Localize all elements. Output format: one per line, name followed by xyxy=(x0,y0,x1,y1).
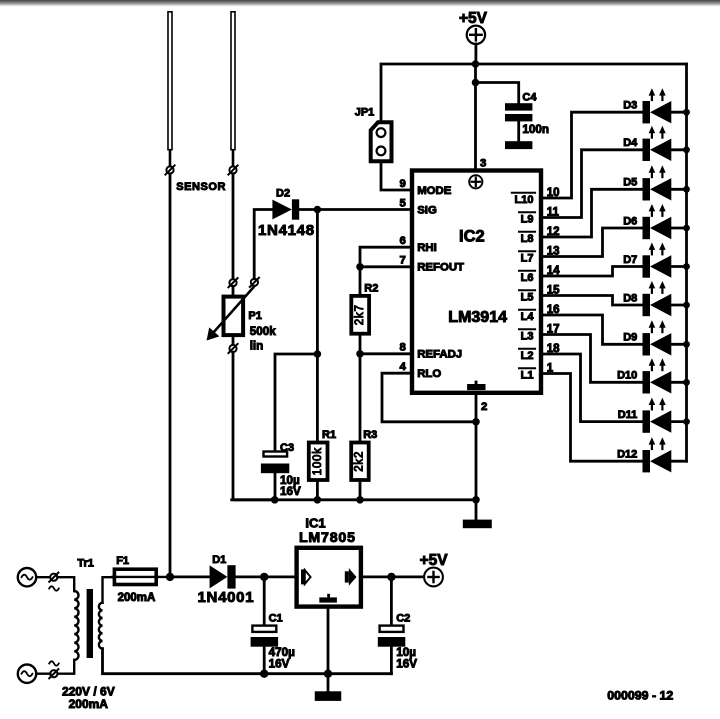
label D9 xyxy=(623,332,637,344)
diode D1 xyxy=(210,565,236,588)
tilde bottom xyxy=(49,661,59,665)
svg-text:MODE: MODE xyxy=(417,185,452,197)
wire D9 anode xyxy=(671,343,686,346)
svg-text:L4: L4 xyxy=(521,311,535,323)
svg-text:L7: L7 xyxy=(521,252,534,264)
IC2 V- tab xyxy=(467,381,485,391)
sensor electrode left xyxy=(168,12,172,150)
resistor R3 xyxy=(351,443,369,481)
svg-text:LM3914: LM3914 xyxy=(448,309,507,326)
resistor R1 xyxy=(309,443,328,481)
pin 14 L6 xyxy=(519,265,560,284)
transformer core xyxy=(87,589,93,658)
wire left electrode down to F1/D1 node xyxy=(169,174,172,577)
label 470u xyxy=(269,646,296,659)
wire D6 anode xyxy=(671,227,686,230)
wire pin 1 to D12 xyxy=(542,374,643,462)
svg-text:JP1: JP1 xyxy=(355,106,375,118)
node C3 link junction xyxy=(314,350,322,358)
node sensor/F1/D1 xyxy=(166,573,174,581)
LED D6 xyxy=(643,204,672,239)
pin 5 SIG xyxy=(399,197,437,216)
svg-text:L9: L9 xyxy=(521,213,534,225)
svg-text:P1: P1 xyxy=(248,310,261,322)
svg-text:R3: R3 xyxy=(363,429,377,441)
label R3 xyxy=(363,429,377,441)
node pin2 gnd rail xyxy=(472,496,480,504)
node D11 rail xyxy=(683,418,690,425)
wire xyxy=(169,151,172,167)
svg-text:F1: F1 xyxy=(116,555,129,567)
wire D8 anode xyxy=(671,304,686,307)
pin 4 RLO xyxy=(399,361,441,380)
svg-text:D1: D1 xyxy=(212,554,226,566)
node RLO/pin2 junction xyxy=(472,418,480,426)
svg-text:C1: C1 xyxy=(269,613,283,625)
wire D7 anode xyxy=(671,265,686,268)
svg-text:2: 2 xyxy=(481,401,487,413)
wire pin 13 to D6 xyxy=(542,228,643,257)
wire R1 bottom xyxy=(316,482,319,500)
svg-text:D9: D9 xyxy=(623,332,637,344)
ground xyxy=(463,520,492,529)
svg-text:D5: D5 xyxy=(623,177,637,189)
svg-text:9: 9 xyxy=(399,178,405,190)
terminal P1 bottom xyxy=(228,344,237,353)
wire pin 14 to D7 xyxy=(542,267,643,277)
label IC2 xyxy=(459,228,485,246)
label +5V output xyxy=(420,552,449,569)
transformer Tr1 secondary xyxy=(99,603,103,649)
wire F1 through xyxy=(113,576,170,578)
wire secondary top to F1 xyxy=(103,577,113,603)
LED D3 xyxy=(643,88,672,123)
svg-text:C2: C2 xyxy=(396,613,410,625)
top border bar xyxy=(0,0,720,7)
pin 6 RHI xyxy=(399,235,436,254)
wire IC1 gnd xyxy=(327,609,330,692)
capacitor C4 xyxy=(505,103,532,141)
label pin 3 xyxy=(480,158,486,170)
wire top +5V rail xyxy=(381,64,687,120)
terminal P1 top xyxy=(228,278,237,287)
IC1 output arrow xyxy=(345,568,357,586)
label P1 xyxy=(248,310,261,322)
label 200mA transformer xyxy=(69,697,109,711)
svg-text:L10: L10 xyxy=(515,194,534,206)
svg-text:3: 3 xyxy=(480,158,486,170)
svg-text:D4: D4 xyxy=(623,137,638,149)
wire secondary bottom to rail xyxy=(103,649,392,674)
svg-text:Tr1: Tr1 xyxy=(77,558,94,570)
wire +5V LED rail xyxy=(685,64,688,461)
wire D1 to IC1 xyxy=(236,576,295,579)
wire C1 top xyxy=(263,577,266,625)
node C1 gnd rail xyxy=(260,670,268,678)
svg-text:8: 8 xyxy=(399,342,405,354)
wire pin 17 to D10 xyxy=(542,335,643,383)
ground IC1 xyxy=(315,691,342,701)
label JP1 xyxy=(355,106,375,118)
wire xyxy=(36,576,50,578)
svg-text:000099 - 12: 000099 - 12 xyxy=(607,689,673,703)
node D4 rail xyxy=(683,146,690,153)
svg-text:D3: D3 xyxy=(623,100,637,112)
svg-text:100n: 100n xyxy=(522,123,549,136)
label SENSOR xyxy=(176,181,226,193)
svg-text:200mA: 200mA xyxy=(69,697,109,711)
label C1 xyxy=(269,613,283,625)
label C3 xyxy=(280,442,294,454)
svg-text:500k: 500k xyxy=(250,325,277,338)
ground C4 xyxy=(505,141,532,149)
wire C2 top xyxy=(390,577,393,625)
node D3 rail xyxy=(683,109,690,116)
svg-text:16V: 16V xyxy=(396,658,417,671)
terminal P1 wiper xyxy=(250,278,259,287)
svg-text:D7: D7 xyxy=(623,254,637,266)
label D12 xyxy=(617,449,637,461)
node R1 gnd xyxy=(314,496,322,504)
svg-text:LM7805: LM7805 xyxy=(299,530,356,546)
LED D10 xyxy=(643,358,672,393)
svg-text:L5: L5 xyxy=(521,291,534,303)
pin 7 REFOUT xyxy=(399,255,464,274)
AC source top xyxy=(18,568,36,586)
label 500k xyxy=(250,325,277,338)
wire D4 anode xyxy=(671,148,686,151)
label D8 xyxy=(623,292,637,304)
svg-text:4: 4 xyxy=(399,361,406,373)
wire pin 10 to D3 xyxy=(542,112,643,198)
wire F1 to D1 xyxy=(170,576,210,579)
svg-text:REFADJ: REFADJ xyxy=(417,349,462,361)
svg-text:L6: L6 xyxy=(521,272,534,284)
wire xyxy=(36,673,50,675)
wire C4 branch xyxy=(476,83,519,104)
wire pin 15 to D8 xyxy=(542,296,643,306)
AC source bottom xyxy=(18,665,36,683)
node REFADJ junction xyxy=(356,350,364,358)
potentiometer P1 body xyxy=(224,297,244,336)
label 1N4001 xyxy=(198,589,255,606)
svg-text:16V: 16V xyxy=(280,485,301,498)
svg-text:D11: D11 xyxy=(618,409,638,421)
diode D2 xyxy=(272,199,299,219)
label D2 xyxy=(276,187,290,199)
wire P1 bottom to ground rail xyxy=(233,352,273,500)
wire primary bottom xyxy=(57,660,74,674)
svg-text:SENSOR: SENSOR xyxy=(176,181,226,193)
label R1 xyxy=(322,429,336,441)
wire MODE stub xyxy=(381,164,410,191)
node D10 rail xyxy=(683,379,690,386)
label C4 xyxy=(522,91,537,103)
label 16V xyxy=(280,485,301,498)
node REFOUT junction xyxy=(356,263,364,271)
svg-text:D12: D12 xyxy=(617,449,637,461)
pin 11 L9 xyxy=(519,207,559,226)
supply +5V output xyxy=(424,568,443,587)
svg-text:100k: 100k xyxy=(312,447,324,475)
wire D12 anode xyxy=(671,460,686,463)
LED D9 xyxy=(643,320,672,355)
node D7 rail xyxy=(683,263,690,270)
label R2 xyxy=(364,282,378,294)
pin 1 L1 xyxy=(519,363,554,382)
label LM7805 xyxy=(299,530,356,546)
node pin3 C4 branch xyxy=(472,79,480,87)
pin 15 L5 xyxy=(519,285,560,304)
svg-text:R1: R1 xyxy=(322,429,336,441)
pin 16 L4 xyxy=(519,304,559,323)
wire xyxy=(232,286,235,296)
wire R2 bottom to R3 xyxy=(359,336,362,441)
node IC1 gnd rail xyxy=(324,670,332,678)
wire pin 11 to D4 xyxy=(542,150,643,218)
pin 9 MODE xyxy=(399,178,451,197)
node D5 rail xyxy=(683,186,690,193)
node C3 gnd xyxy=(271,496,279,504)
LED D4 xyxy=(643,126,672,161)
wire D2 cathode to SIG pin 5 xyxy=(299,208,409,211)
wire xyxy=(232,337,235,346)
label D1 xyxy=(212,554,226,566)
node R3 gnd xyxy=(356,496,364,504)
label 200mA fuse xyxy=(118,592,156,604)
wire ground rail xyxy=(232,498,476,501)
capacitor C2 xyxy=(378,626,406,674)
svg-text:lin: lin xyxy=(250,340,264,353)
svg-text:D8: D8 xyxy=(623,292,637,304)
label D4 xyxy=(623,137,638,149)
node D9 rail xyxy=(683,341,690,348)
node D6 rail xyxy=(683,225,690,232)
node C1 top xyxy=(260,573,268,581)
terminal mains top xyxy=(49,573,58,582)
label D7 xyxy=(623,254,637,266)
wire xyxy=(232,151,235,167)
label lin xyxy=(250,340,264,353)
LED D5 xyxy=(643,165,672,200)
wire REFOUT pin 7 xyxy=(360,265,410,268)
svg-text:L2: L2 xyxy=(521,350,534,362)
svg-text:RHI: RHI xyxy=(417,242,437,254)
capacitor C1 xyxy=(251,626,279,674)
label D5 xyxy=(623,177,637,189)
op-amp IC2 LM3914 body xyxy=(412,171,541,393)
node +5V rail xyxy=(472,60,480,68)
P1 wiper arrow xyxy=(207,286,255,340)
label 000099-12 xyxy=(607,689,673,703)
wire primary top xyxy=(57,577,74,591)
svg-text:D10: D10 xyxy=(617,370,637,382)
svg-text:C3: C3 xyxy=(280,442,294,454)
jumper JP1 xyxy=(371,122,392,161)
wire pin 12 to D5 xyxy=(542,189,643,237)
pin 13 L7 xyxy=(519,246,559,265)
node D8 rail xyxy=(683,302,690,309)
svg-text:REFOUT: REFOUT xyxy=(417,262,464,274)
regulator IC1 LM7805 body xyxy=(297,548,361,607)
IC1 input arrow xyxy=(301,569,311,584)
wire D5 anode xyxy=(671,188,686,191)
svg-text:1N4001: 1N4001 xyxy=(198,589,255,606)
label LM3914 xyxy=(448,309,507,326)
terminal left sensor xyxy=(165,165,174,174)
svg-text:RLO: RLO xyxy=(417,368,441,380)
svg-text:D6: D6 xyxy=(623,215,637,227)
wire right electrode to P1 xyxy=(232,174,235,280)
wire R3 bottom xyxy=(359,482,362,500)
transformer Tr1 primary xyxy=(74,591,78,660)
node SIG junction xyxy=(314,206,322,214)
label 16V C2 xyxy=(396,658,417,671)
svg-text:L3: L3 xyxy=(521,330,534,342)
fuse F1 xyxy=(113,569,158,584)
svg-text:16V: 16V xyxy=(269,658,290,671)
label C2 xyxy=(396,613,410,625)
IC1 gnd tab xyxy=(319,594,337,603)
wire IC1 out xyxy=(363,576,422,579)
svg-text:IC1: IC1 xyxy=(305,516,325,531)
wire D11 anode xyxy=(671,420,686,423)
IC2 plus marker xyxy=(469,175,482,188)
terminal mains bottom xyxy=(49,669,58,678)
terminal right sensor xyxy=(228,165,237,174)
svg-text:D2: D2 xyxy=(276,187,290,199)
label pin 2 xyxy=(481,401,487,413)
svg-text:+5V: +5V xyxy=(459,10,488,27)
tilde top xyxy=(49,586,59,590)
node C2 top xyxy=(387,573,395,581)
label 10u C2 xyxy=(396,646,416,659)
label 16V C1 xyxy=(269,658,290,671)
label +5V top xyxy=(459,10,488,27)
svg-text:L1: L1 xyxy=(521,369,534,381)
wire RHI pin 6 xyxy=(360,247,410,294)
label 100n xyxy=(522,123,549,136)
label 10u xyxy=(280,474,300,487)
svg-text:SIG: SIG xyxy=(417,204,437,216)
capacitor C3 xyxy=(261,452,289,500)
pin 18 L2 xyxy=(519,343,560,362)
label 1N4148 xyxy=(258,222,315,239)
svg-text:R2: R2 xyxy=(364,282,378,294)
LED D11 xyxy=(643,398,672,433)
resistor R2 xyxy=(351,296,369,334)
svg-text:L8: L8 xyxy=(521,233,534,245)
wire pin 16 to D9 xyxy=(542,315,643,344)
supply +5V top xyxy=(467,26,485,64)
label D6 xyxy=(623,215,637,227)
LED D12 xyxy=(643,437,672,472)
label IC1 xyxy=(305,516,325,531)
svg-text:+5V: +5V xyxy=(420,552,449,569)
label Tr1 xyxy=(77,558,94,570)
svg-text:200mA: 200mA xyxy=(118,592,156,604)
pin 12 L8 xyxy=(519,226,559,245)
label D10 xyxy=(617,370,637,382)
svg-text:IC2: IC2 xyxy=(459,228,485,246)
pin 17 L3 xyxy=(519,324,559,343)
wire C3 top link xyxy=(275,354,317,450)
LED D7 xyxy=(643,243,672,278)
wire D2 anode to wiper xyxy=(254,210,272,279)
svg-text:2k7: 2k7 xyxy=(354,304,366,325)
pin 8 REFADJ xyxy=(399,342,462,361)
svg-text:5: 5 xyxy=(399,197,406,209)
svg-text:2k2: 2k2 xyxy=(354,451,366,472)
svg-text:7: 7 xyxy=(399,255,405,267)
svg-text:6: 6 xyxy=(399,235,405,247)
LED D8 xyxy=(643,281,672,316)
wire D10 anode xyxy=(671,381,686,384)
wire RLO pin 4 route xyxy=(382,373,476,422)
label F1 xyxy=(116,555,129,567)
wire pin 18 to D11 xyxy=(542,354,643,422)
pin 10 L10 xyxy=(512,187,560,206)
wire REFADJ pin 8 xyxy=(360,352,410,355)
label D11 xyxy=(618,409,638,421)
wire D3 anode xyxy=(671,111,686,114)
svg-text:1N4148: 1N4148 xyxy=(258,222,315,239)
svg-text:C4: C4 xyxy=(522,91,537,103)
pin 3 wire xyxy=(474,64,477,171)
wire SIG node down to R1 xyxy=(316,210,319,441)
label 220V / 6V xyxy=(62,685,115,699)
wire pin 2 down xyxy=(475,394,478,520)
sensor electrode right xyxy=(231,12,235,150)
label D3 xyxy=(623,100,637,112)
